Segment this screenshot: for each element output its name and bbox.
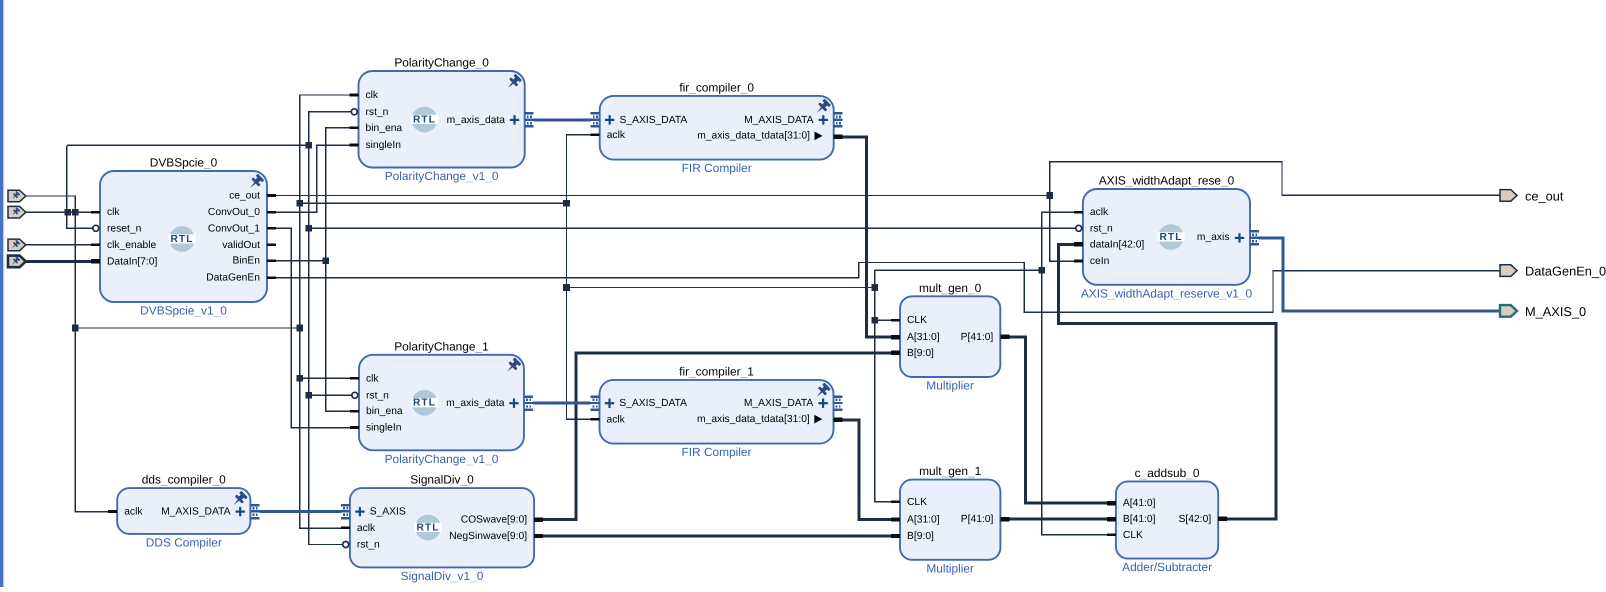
- svg-text:bin_ena: bin_ena: [366, 406, 403, 417]
- wire mult1 P to c_addsub B: [1004, 518, 1112, 521]
- svg-text:PolarityChange_1: PolarityChange_1: [394, 339, 489, 353]
- svg-text:c_addsub_0: c_addsub_0: [1135, 466, 1200, 480]
- IP block DVBSpcie_0: [100, 156, 267, 318]
- svg-text:RTL: RTL: [416, 522, 439, 533]
- svg-text:m_axis_data: m_axis_data: [446, 398, 505, 409]
- wire PC1 rst_n wire: [309, 394, 353, 396]
- svg-text:Adder/Subtracter: Adder/Subtracter: [1122, 560, 1212, 574]
- svg-text:Multiplier: Multiplier: [926, 379, 974, 393]
- IP block fir_compiler_1: [600, 364, 834, 459]
- wire rst column x308.6: [309, 112, 352, 545]
- wire AXI PC1 to fir1: [533, 402, 591, 405]
- svg-text:S_AXIS_DATA: S_AXIS_DATA: [620, 115, 688, 126]
- svg-text:PolarityChange_v1_0: PolarityChange_v1_0: [385, 169, 499, 183]
- junction clk-port junction b: [72, 209, 79, 216]
- junction clk j AXIS column: [1038, 267, 1045, 274]
- svg-text:rst_n: rst_n: [366, 107, 389, 118]
- svg-text:SignalDiv_0: SignalDiv_0: [410, 473, 474, 487]
- wire reset riser x66.9: [67, 145, 93, 228]
- IP block c_addsub_0: [1116, 466, 1218, 574]
- svg-text:CLK: CLK: [1123, 530, 1143, 541]
- wire AXI AXIS m_axis to M_AXIS_0 port: [1259, 238, 1500, 311]
- mult_gen_0 pins: [891, 315, 1009, 359]
- external input port reset_n (port 2): [8, 206, 26, 218]
- svg-text:clk: clk: [366, 90, 379, 101]
- svg-text:Multiplier: Multiplier: [926, 561, 974, 575]
- wire COSwave to mult0 B: [537, 353, 896, 520]
- svg-text:rst_n: rst_n: [1090, 223, 1113, 234]
- svg-text:rst_n: rst_n: [357, 540, 380, 551]
- junction rst j PC1: [305, 392, 312, 399]
- external output port DataGenEn_0: [1500, 264, 1606, 279]
- svg-text:BinEn: BinEn: [233, 256, 261, 267]
- svg-text:dataIn[42:0]: dataIn[42:0]: [1090, 239, 1145, 250]
- svg-text:aclk: aclk: [357, 523, 376, 534]
- svg-text:ce_out: ce_out: [1525, 188, 1564, 203]
- svg-text:ceIn: ceIn: [1090, 256, 1110, 267]
- IP block AXIS_widthAdapt_rese_0: [1081, 174, 1253, 301]
- wire PolarityChange_0 clk riser: [300, 95, 352, 528]
- svg-text:DVBSpcie_v1_0: DVBSpcie_v1_0: [140, 304, 227, 318]
- svg-text:B[9:0]: B[9:0]: [907, 348, 934, 359]
- svg-text:m_axis: m_axis: [1197, 232, 1230, 243]
- junction clk trunk j mult0: [871, 317, 878, 324]
- junction clk trunk j y287: [871, 284, 878, 291]
- DVBSpcie_0 pins: [91, 191, 276, 284]
- svg-text:DVBSpcie_0: DVBSpcie_0: [150, 156, 218, 170]
- junction clk-port junction a: [64, 209, 71, 216]
- PolarityChange_1 pins: [350, 373, 533, 433]
- svg-text:CLK: CLK: [907, 315, 927, 326]
- svg-text:DDS Compiler: DDS Compiler: [146, 535, 222, 549]
- external output port ce_out: [1500, 188, 1564, 203]
- IP block PolarityChange_0: [359, 56, 525, 184]
- svg-text:fir_compiler_1: fir_compiler_1: [679, 364, 754, 378]
- wire ConvOut_0 to PC0 singleIn: [267, 145, 352, 212]
- svg-text:S_AXIS_DATA: S_AXIS_DATA: [619, 398, 687, 409]
- wire mult0 P to c_addsub A: [1004, 337, 1112, 503]
- svg-text:A[31:0]: A[31:0]: [907, 332, 940, 343]
- svg-text:clk_enable: clk_enable: [107, 240, 157, 251]
- svg-text:mult_gen_1: mult_gen_1: [919, 464, 982, 478]
- junction clk j x299/y328: [297, 325, 304, 332]
- svg-text:validOut: validOut: [222, 240, 260, 251]
- svg-text:dds_compiler_0: dds_compiler_0: [142, 473, 226, 487]
- svg-text:FIR Compiler: FIR Compiler: [682, 161, 752, 175]
- wire c_addsub S to AXIS dataIn: [1059, 244, 1277, 519]
- wire mult_gen_0 CLK wire: [875, 319, 896, 321]
- svg-text:aclk: aclk: [124, 507, 143, 518]
- svg-text:COSwave[9:0]: COSwave[9:0]: [461, 515, 528, 526]
- svg-text:CLK: CLK: [907, 497, 927, 508]
- wire bin_ena column x325.6: [326, 128, 352, 411]
- wire clk branch y328: [75, 327, 299, 329]
- left toolbar strip: [0, 0, 3, 587]
- svg-text:FIR Compiler: FIR Compiler: [681, 445, 751, 459]
- wire ConvOut_1 to PC1 singleIn: [267, 228, 352, 427]
- svg-text:ConvOut_0: ConvOut_0: [208, 207, 260, 218]
- external input port clk_enable (port 3): [8, 239, 26, 251]
- external input port clk (port 1): [8, 190, 26, 202]
- svg-text:reset_n: reset_n: [107, 223, 142, 234]
- junction rst j y228: [305, 225, 312, 232]
- svg-text:m_axis_data_tdata[31:0]: m_axis_data_tdata[31:0]: [697, 131, 810, 142]
- svg-text:S[42:0]: S[42:0]: [1179, 514, 1212, 525]
- svg-text:ce_out: ce_out: [229, 191, 260, 202]
- svg-text:aclk: aclk: [607, 130, 626, 141]
- svg-text:ConvOut_1: ConvOut_1: [208, 223, 260, 234]
- SignalDiv_0 pins: [341, 504, 543, 551]
- wire fir0 tdata to mult0 A: [836, 137, 896, 337]
- svg-text:A[31:0]: A[31:0]: [907, 515, 940, 526]
- wire clk feed y287.5: [567, 287, 875, 289]
- wire reset: external port2 to DVBSpcie clk pin row: [26, 211, 92, 213]
- svg-text:DataIn[7:0]: DataIn[7:0]: [107, 256, 158, 267]
- wire DataGenEn wire: [267, 263, 1500, 313]
- IP block mult_gen_1: [900, 464, 1000, 575]
- svg-text:B[9:0]: B[9:0]: [907, 531, 934, 542]
- svg-text:m_axis_data: m_axis_data: [447, 115, 506, 126]
- svg-text:RTL: RTL: [170, 234, 193, 245]
- svg-text:DataGenEn_0: DataGenEn_0: [1525, 264, 1606, 279]
- svg-text:PolarityChange_0: PolarityChange_0: [394, 56, 489, 70]
- junction clk j x75/y328: [72, 325, 79, 332]
- wire aclk trunk x566.5: [567, 135, 594, 420]
- wire clk: external port1 to clk column: [26, 196, 110, 512]
- svg-text:M_AXIS_DATA: M_AXIS_DATA: [744, 115, 814, 126]
- wire AXI PC0 to fir0: [534, 118, 591, 121]
- svg-text:mult_gen_0: mult_gen_0: [919, 281, 982, 295]
- svg-text:P[41:0]: P[41:0]: [961, 332, 994, 343]
- wire ce_out detour over AXIS: [1050, 162, 1500, 196]
- junction ce j: [1046, 192, 1053, 199]
- wire clk_enable: port3 wire: [26, 244, 92, 246]
- external input port DataIn[7:0] (port 4): [8, 256, 26, 268]
- junction binEn j: [322, 257, 329, 264]
- svg-text:AXIS_widthAdapt_reserve_v1_0: AXIS_widthAdapt_reserve_v1_0: [1081, 286, 1253, 300]
- wire clk trunk x874.6: [875, 270, 896, 502]
- svg-text:aclk: aclk: [1090, 207, 1109, 218]
- wire BinEn wire: [267, 260, 326, 262]
- svg-text:bin_ena: bin_ena: [366, 123, 403, 134]
- IP block mult_gen_0: [900, 281, 1000, 393]
- svg-text:rst_n: rst_n: [366, 390, 389, 401]
- mult_gen_1 pins: [891, 497, 1009, 542]
- svg-text:NegSinwave[9:0]: NegSinwave[9:0]: [449, 531, 527, 542]
- svg-text:M_AXIS_0: M_AXIS_0: [1525, 304, 1586, 319]
- wire ce_out long line: [267, 195, 1050, 197]
- svg-text:A[41:0]: A[41:0]: [1123, 498, 1156, 509]
- wire ce to AXIS ceIn: [1050, 196, 1076, 262]
- IP block SignalDiv_0: [350, 473, 534, 583]
- junction aclk j y203: [563, 200, 570, 207]
- junction clk j PC1 clk: [297, 375, 304, 382]
- svg-text:clk: clk: [107, 207, 120, 218]
- svg-text:S_AXIS: S_AXIS: [370, 507, 406, 518]
- fir_compiler_0 pins: [591, 112, 843, 142]
- IP block PolarityChange_1: [359, 339, 524, 466]
- c_addsub_0 pins: [1107, 498, 1227, 541]
- svg-text:RTL: RTL: [1159, 232, 1182, 243]
- IP block dds_compiler_0: [117, 473, 250, 550]
- svg-text:P[41:0]: P[41:0]: [961, 514, 994, 525]
- wire reset to AXIS rst_n: [309, 227, 1077, 229]
- wire fir1 tdata to mult1 A: [836, 420, 896, 520]
- junction aclk j y287: [563, 284, 570, 291]
- svg-text:m_axis_data_tdata[31:0]: m_axis_data_tdata[31:0]: [697, 414, 810, 425]
- svg-text:aclk: aclk: [607, 415, 626, 426]
- svg-text:DataGenEn: DataGenEn: [206, 273, 260, 284]
- svg-text:B[41:0]: B[41:0]: [1123, 514, 1156, 525]
- svg-text:singleIn: singleIn: [366, 140, 402, 151]
- junction rst j y145: [305, 142, 312, 149]
- PolarityChange_0 pins: [350, 90, 534, 151]
- wire AXI dds to SignalDiv: [259, 510, 341, 513]
- wire AXIS aclk / c_addsub CLK column: [1042, 212, 1112, 535]
- dds_compiler_0 pins: [108, 504, 259, 520]
- wire NegSinwave to mult1 B: [537, 535, 896, 538]
- wire clk to AXIS column: [875, 269, 1042, 271]
- wire singleIn feed y145: [67, 144, 309, 146]
- svg-text:M_AXIS_DATA: M_AXIS_DATA: [161, 507, 231, 518]
- junction clk j x299/y203: [297, 200, 304, 207]
- svg-text:RTL: RTL: [413, 114, 436, 125]
- wire PC1 clk wire: [300, 377, 352, 379]
- svg-text:SignalDiv_v1_0: SignalDiv_v1_0: [401, 569, 484, 583]
- svg-text:fir_compiler_0: fir_compiler_0: [679, 80, 754, 94]
- svg-text:PolarityChange_v1_0: PolarityChange_v1_0: [385, 452, 499, 466]
- fir_compiler_1 pins: [591, 395, 843, 425]
- svg-text:singleIn: singleIn: [366, 423, 402, 434]
- svg-text:RTL: RTL: [413, 398, 436, 409]
- IP block fir_compiler_0: [600, 80, 834, 175]
- wire clk distribution y203: [300, 202, 567, 204]
- svg-text:clk: clk: [366, 373, 379, 384]
- AXIS_widthAdapt_rese_0 pins: [1074, 207, 1259, 267]
- svg-text:M_AXIS_DATA: M_AXIS_DATA: [744, 398, 814, 409]
- wire DataIn: port4 bus wire: [26, 260, 92, 263]
- external output port M_AXIS_0: [1500, 304, 1586, 319]
- svg-text:AXIS_widthAdapt_rese_0: AXIS_widthAdapt_rese_0: [1099, 174, 1235, 188]
